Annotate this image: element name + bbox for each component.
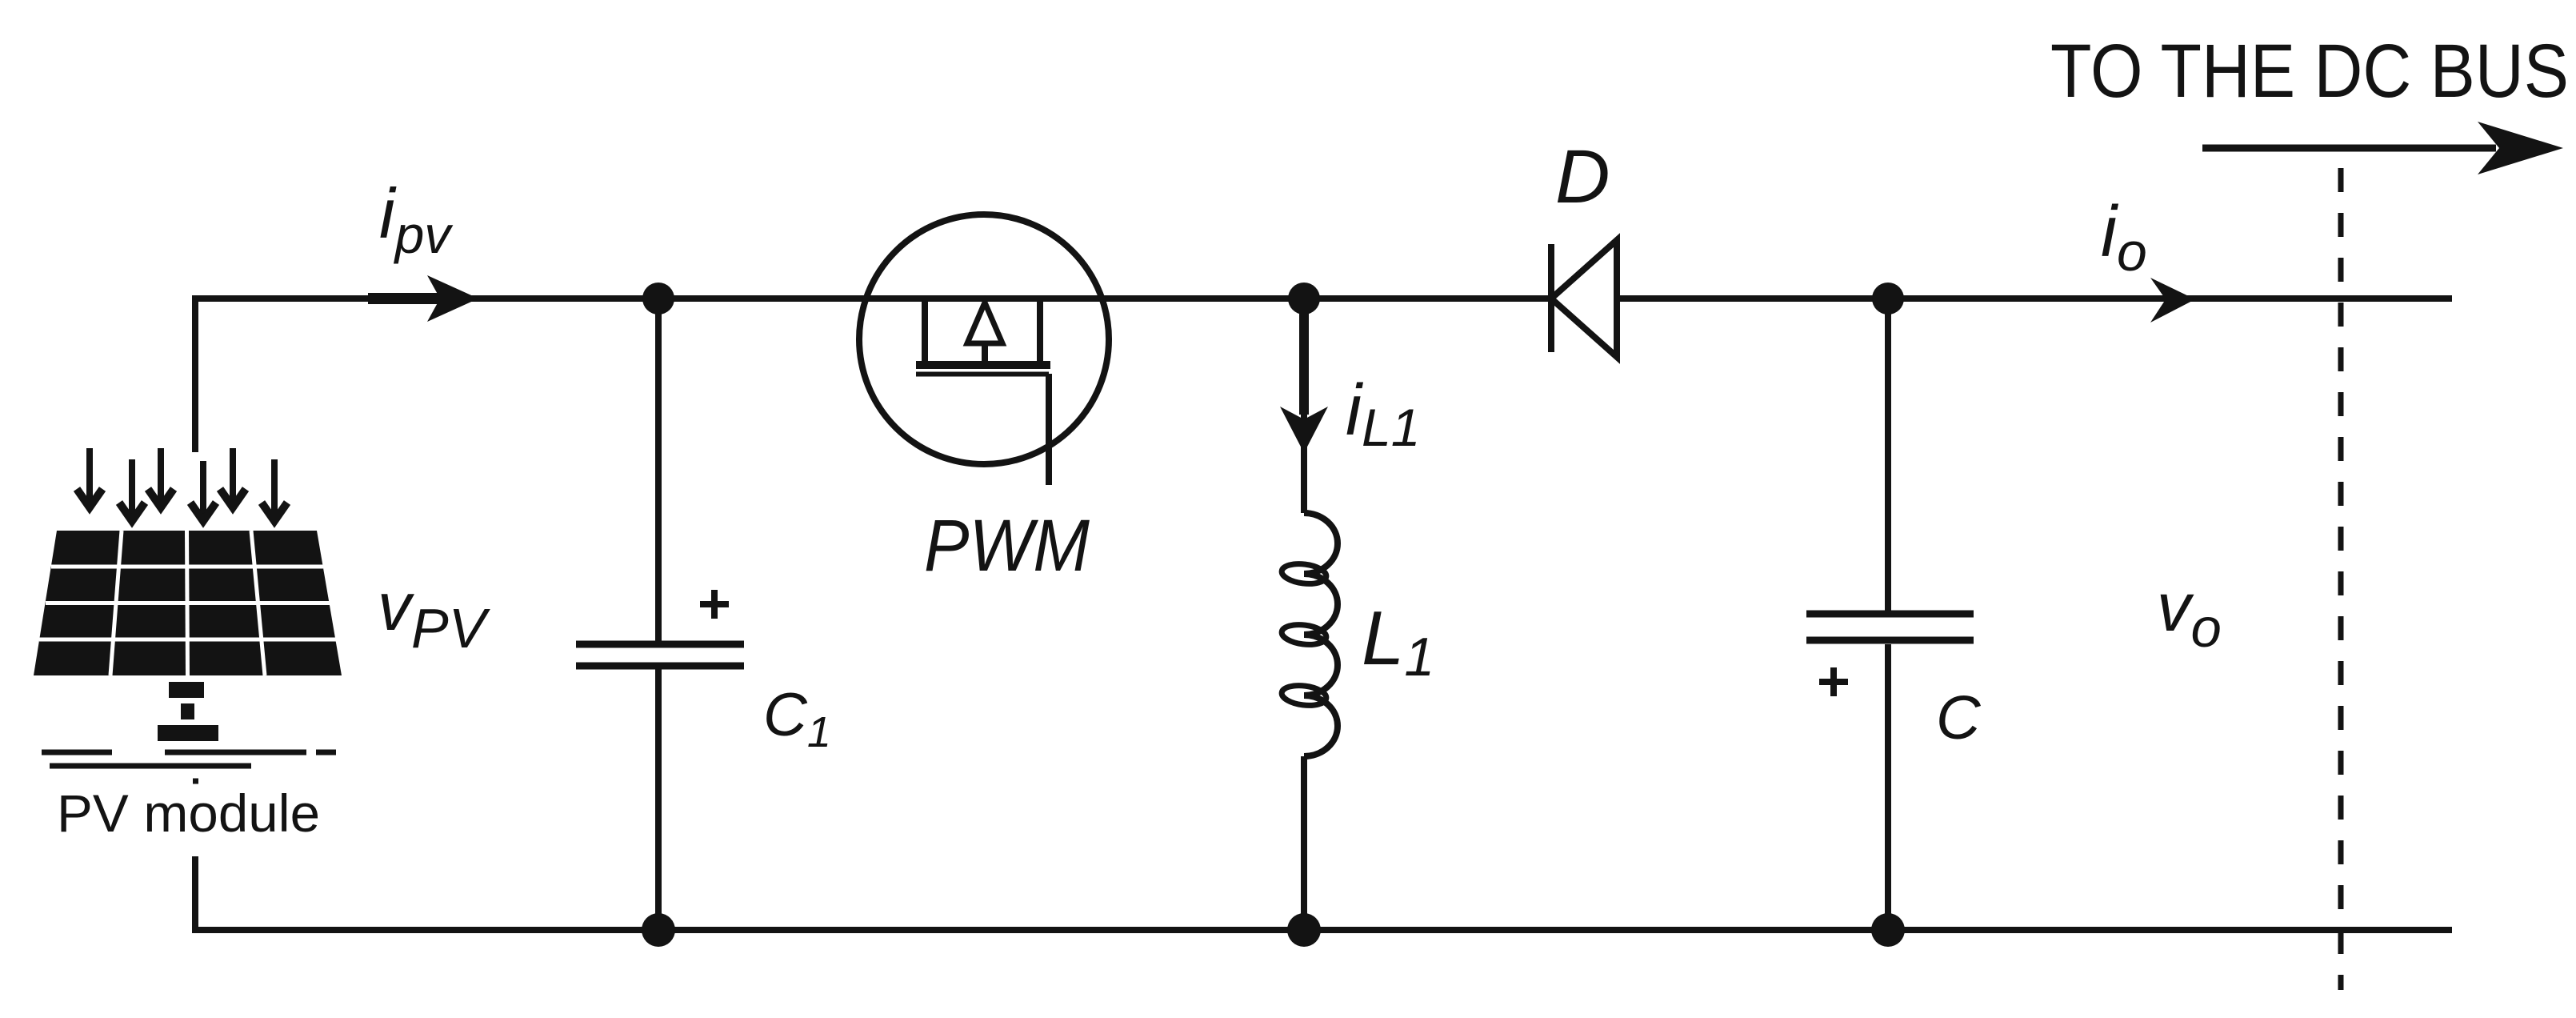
svg-text:TO THE DC BUS: TO THE DC BUS bbox=[2050, 29, 2569, 114]
svg-text:PWM: PWM bbox=[924, 505, 1090, 587]
svg-text:D: D bbox=[1555, 134, 1610, 219]
node C (diode/output junction) bbox=[1872, 283, 1904, 315]
capacitor C top lead bbox=[1885, 299, 1891, 614]
wire to inductor bbox=[1301, 448, 1307, 513]
wire PV bottom lead bbox=[192, 856, 198, 930]
svg-text:C: C bbox=[1936, 683, 1982, 752]
dashed bus boundary line bbox=[2338, 168, 2344, 990]
node A (top C1 junction) bbox=[642, 283, 674, 315]
C plus sign bbox=[1819, 667, 1848, 696]
node E (bottom inductor junction) bbox=[1287, 913, 1321, 947]
capacitor C plates bbox=[1806, 614, 1974, 640]
inductor lower lead bbox=[1301, 756, 1307, 930]
diode D cathode bar bbox=[1548, 244, 1554, 352]
PV module panel bbox=[34, 531, 342, 675]
inductor branch upper lead bbox=[1301, 299, 1307, 452]
current arrow i_pv bbox=[368, 275, 478, 322]
capacitor C1 top lead bbox=[655, 299, 662, 641]
MOSFET Q1 circle bbox=[859, 214, 1109, 464]
PV module sun arrows bbox=[77, 448, 287, 521]
capacitor C bottom lead bbox=[1885, 644, 1891, 930]
current arrow i_L1 bbox=[1280, 312, 1328, 453]
node B (switch/inductor junction) bbox=[1288, 283, 1320, 315]
wire top rail left segment bbox=[195, 295, 1551, 302]
node F (bottom C junction) bbox=[1871, 913, 1905, 947]
diode D triangle bbox=[1551, 240, 1617, 357]
capacitor C1 plates bbox=[576, 644, 744, 666]
current arrow i_o bbox=[2150, 278, 2195, 323]
wire bottom rail bbox=[192, 927, 2452, 933]
svg-text:PV module: PV module bbox=[57, 784, 320, 843]
wire left vertical from PV positive terminal bbox=[192, 295, 198, 452]
DC bus arrow bbox=[2202, 122, 2563, 174]
wire top rail right segment bbox=[1617, 295, 2452, 302]
PV module stand bbox=[158, 682, 218, 741]
C1 plus sign bbox=[700, 590, 729, 619]
node D (bottom C1 junction) bbox=[642, 913, 675, 947]
PV module ground lines bbox=[42, 752, 336, 781]
inductor L1 coil bbox=[1281, 513, 1338, 756]
capacitor C1 bottom lead bbox=[655, 669, 662, 930]
MOSFET Q1 symbol bbox=[916, 299, 1050, 485]
